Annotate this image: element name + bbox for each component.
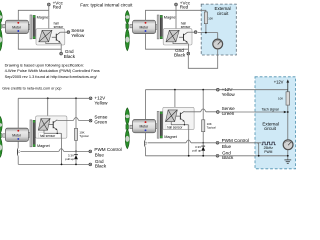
transistor Q4b (PWM switch) — [145, 133, 147, 156]
junction PWM return — [258, 155, 260, 157]
blade highlight (upper) — [125, 15, 129, 19]
junction pull-up/sense — [205, 32, 207, 34]
wire — [18, 97, 89, 99]
hall element X — [166, 110, 178, 122]
wire — [173, 42, 188, 44]
wire — [75, 98, 77, 128]
wire — [188, 125, 190, 156]
wire — [75, 140, 77, 151]
hall element X — [38, 119, 50, 131]
transistor Q4 — [176, 111, 185, 122]
svg-text:Green: Green — [94, 119, 107, 124]
rotor disc — [30, 15, 32, 39]
magnet bar — [33, 15, 35, 38]
terminal Gnd — [216, 154, 219, 157]
svg-text:Magnet: Magnet — [164, 135, 178, 139]
magnet N cap — [33, 15, 35, 17]
fan blade (lower) — [125, 129, 129, 149]
magnet N cap — [33, 120, 35, 122]
rotor disc — [30, 120, 32, 147]
terminal +12V — [216, 88, 219, 91]
svg-text:Red: Red — [53, 5, 62, 10]
junction emitter — [57, 133, 58, 134]
terminal +Vcc — [175, 3, 178, 6]
magnet bar — [160, 112, 162, 138]
terminal Sense — [194, 31, 197, 34]
svg-text:Black: Black — [95, 163, 107, 168]
ground symbol — [284, 160, 291, 163]
blade highlight (lower) — [125, 136, 129, 142]
motor - dot (blue) — [145, 30, 147, 32]
wire — [183, 122, 185, 125]
svg-text:Magnet: Magnet — [37, 16, 51, 20]
motor M1 body — [5, 20, 28, 33]
svg-text:Black: Black — [174, 53, 186, 58]
svg-text:Green: Green — [222, 111, 235, 116]
wire — [56, 130, 58, 133]
rotor disc — [157, 15, 159, 39]
blade highlight (lower) — [0, 37, 2, 43]
wire — [175, 10, 177, 30]
motor M2 body — [133, 20, 156, 33]
fan hub knob — [126, 24, 129, 29]
wire — [184, 111, 216, 113]
junction emitter — [184, 124, 185, 125]
wire hop over pull-up rail — [73, 118, 78, 121]
terminal Gnd — [89, 163, 92, 166]
fan hub shaft — [130, 24, 135, 27]
wire — [60, 44, 62, 53]
wire — [148, 142, 217, 144]
svg-text:Yellow: Yellow — [71, 33, 85, 38]
+12V supply arrow — [287, 81, 289, 92]
junction gnd hall — [188, 155, 190, 157]
wire — [20, 150, 89, 152]
fan blade (upper) — [125, 108, 129, 125]
terminal PWM Control — [89, 150, 92, 153]
resistor R4 10K typical — [202, 120, 205, 132]
wire — [144, 90, 146, 120]
wire PWM source return — [257, 143, 259, 156]
diode D3 (clamp) — [74, 151, 78, 164]
junction gnd diode — [75, 164, 77, 166]
hall sensor box U2 — [163, 29, 192, 45]
wire — [202, 90, 204, 120]
wire — [219, 89, 288, 91]
svg-text:Yellow: Yellow — [94, 101, 108, 106]
blade highlight (upper) — [0, 15, 2, 19]
terminal Gnd — [187, 52, 190, 55]
fan hub knob — [126, 125, 129, 130]
junction gnd/meter — [287, 155, 289, 157]
magnet S cap — [33, 144, 35, 146]
wire — [198, 32, 218, 34]
blade highlight (lower) — [0, 144, 2, 150]
motor M4 body — [133, 120, 156, 133]
motor + dot (red) — [17, 130, 19, 132]
wire hop over pull-up rail — [201, 109, 206, 112]
junction PWM pull-up — [202, 142, 204, 144]
hall sensor label backing — [166, 124, 188, 129]
terminal Gnd — [60, 52, 63, 55]
wire — [146, 10, 177, 20]
wire — [188, 31, 195, 33]
blade highlight (upper) — [0, 123, 2, 127]
wire hop over gnd drop — [59, 149, 64, 152]
transistor Q1 — [52, 32, 61, 43]
fan blade (lower) — [125, 29, 129, 51]
blade highlight (upper) — [125, 115, 129, 119]
fan blade (upper) — [0, 10, 2, 23]
svg-text:PWM: PWM — [264, 150, 272, 154]
wire — [57, 119, 89, 121]
junction PWM pull-up — [75, 151, 77, 153]
terminal +12V — [89, 97, 92, 100]
wire — [187, 44, 189, 53]
wire — [17, 98, 19, 128]
wire — [171, 122, 189, 125]
terminal Sense — [216, 111, 219, 114]
motor shaft to rotor — [28, 25, 30, 30]
resistor R4e 10K (tach pull-up) — [286, 92, 290, 105]
magnet S cap — [160, 37, 162, 39]
svg-text:Magnet: Magnet — [37, 144, 51, 148]
PWM source square wave — [262, 142, 276, 145]
wire — [219, 142, 262, 144]
svg-text:circuit: circuit — [217, 11, 229, 16]
fan blade (upper) — [0, 116, 2, 133]
svg-text:Magnet: Magnet — [164, 16, 178, 20]
wire — [287, 150, 289, 160]
wire — [18, 10, 49, 20]
transistor Q3b (PWM switch) — [18, 141, 20, 164]
motor - dot (blue) — [17, 138, 19, 140]
fan hub shaft — [130, 125, 135, 128]
svg-text:sensor: sensor — [181, 25, 192, 29]
motor shaft to rotor — [156, 124, 158, 129]
transistor Q2 — [179, 32, 188, 43]
fan blade (lower) — [0, 29, 2, 51]
svg-text:4-Wire Pulse Width Modulation: 4-Wire Pulse Width Modulation (PWM) Cont… — [5, 68, 100, 73]
motor M3 body — [5, 128, 28, 141]
wire — [145, 155, 216, 157]
wire — [47, 98, 49, 118]
fan hub shaft — [3, 24, 8, 27]
blade highlight (lower) — [125, 37, 129, 43]
svg-text:Motor: Motor — [139, 125, 149, 129]
junction gnd hall — [61, 164, 63, 166]
terminal Sense — [67, 31, 70, 34]
motor - dot (blue) — [145, 129, 147, 131]
resistor R3 10K typical — [74, 128, 77, 140]
wire — [176, 10, 206, 12]
svg-text:Motor: Motor — [139, 25, 149, 29]
svg-text:10K: 10K — [208, 16, 213, 20]
RPM meter — [213, 39, 223, 49]
diode D4 (clamp) — [201, 143, 205, 156]
svg-text:pull up: pull up — [192, 149, 201, 153]
junction hall feed — [47, 97, 49, 99]
terminal +Vcc — [47, 3, 50, 6]
svg-text:Typical: Typical — [207, 126, 216, 130]
wire — [18, 34, 61, 50]
svg-text:Motor: Motor — [12, 133, 22, 137]
rotor disc — [157, 111, 159, 138]
svg-text:Fan: typical internal circuit: Fan: typical internal circuit — [80, 2, 133, 7]
svg-text:Red: Red — [180, 5, 189, 10]
tach arrowhead — [284, 111, 287, 114]
resistor R2e 10K — [204, 12, 207, 24]
RPM meter — [283, 140, 293, 150]
wire — [48, 10, 50, 30]
fan blade (upper) — [125, 10, 129, 23]
svg-text:hall sensor: hall sensor — [167, 126, 183, 130]
wire — [205, 24, 207, 33]
terminal PWM Control — [216, 141, 219, 144]
terminal Sense — [89, 119, 92, 122]
wire hop over gnd drop — [186, 140, 191, 143]
junction gnd diode — [202, 155, 204, 157]
wire — [18, 163, 89, 165]
wire — [217, 33, 219, 40]
hall element X — [166, 30, 179, 42]
wire — [202, 132, 204, 143]
magnet bar — [160, 15, 162, 38]
wire — [146, 34, 189, 50]
magnet bar — [33, 120, 35, 146]
motor + dot (red) — [145, 22, 147, 24]
magnet S cap — [160, 136, 162, 138]
svg-text:Give credits to neta-nuts.com: Give credits to neta-nuts.com or pcp — [2, 87, 61, 91]
svg-text:sensor: sensor — [54, 25, 65, 29]
svg-text:External: External — [215, 6, 231, 11]
svg-text:PWM Control: PWM Control — [94, 147, 121, 152]
junction hall feed — [174, 89, 176, 91]
wire — [61, 133, 63, 164]
wire — [44, 130, 62, 133]
svg-text:hall sensor: hall sensor — [40, 134, 56, 138]
fan hub knob — [0, 24, 1, 29]
motor shaft to rotor — [28, 132, 30, 137]
svg-text:Tach signal: Tach signal — [262, 107, 279, 111]
magnet N cap — [160, 15, 162, 17]
junction pull-up feed — [202, 89, 204, 91]
svg-text:Blue: Blue — [222, 144, 232, 149]
wire — [60, 31, 67, 33]
svg-text:10K: 10K — [278, 96, 283, 100]
motor + dot (red) — [17, 22, 19, 24]
svg-text:Black: Black — [64, 54, 76, 59]
magnet N cap — [160, 112, 162, 114]
hall sensor box U4 — [163, 107, 194, 129]
fan hub shaft — [3, 134, 8, 137]
fan hub knob — [0, 133, 1, 138]
wire — [219, 155, 288, 157]
wire — [287, 105, 289, 140]
wire — [46, 42, 61, 44]
magnet S cap — [33, 37, 35, 39]
wire — [219, 111, 284, 113]
junction tach — [287, 111, 289, 113]
transistor Q3 — [49, 120, 58, 131]
motor + dot (red) — [145, 121, 147, 123]
motor shaft to rotor — [156, 25, 158, 30]
svg-text:Drawing is based upon followin: Drawing is based upon following specific… — [5, 62, 84, 67]
hall sensor box U3 — [36, 116, 67, 138]
wire — [174, 90, 176, 110]
svg-text:Yellow: Yellow — [222, 92, 236, 97]
junction pull-up feed — [75, 97, 77, 99]
svg-text:Typical: Typical — [79, 134, 88, 138]
svg-text:+12V: +12V — [274, 80, 284, 85]
svg-text:Sep/2005 rev 1.3 found at http: Sep/2005 rev 1.3 found at http://www.for… — [5, 74, 98, 79]
svg-text:Motor: Motor — [12, 25, 22, 29]
wire — [175, 6, 177, 10]
motor - dot (blue) — [17, 30, 19, 32]
svg-text:Blue: Blue — [95, 153, 105, 158]
svg-text:circuit: circuit — [264, 126, 277, 131]
wire — [48, 6, 50, 10]
fan blade (lower) — [0, 138, 2, 158]
svg-text:pull up: pull up — [65, 157, 74, 161]
hall element X — [39, 30, 52, 42]
hall sensor label backing — [39, 133, 61, 138]
hall sensor box U1 — [36, 29, 65, 45]
wire — [145, 89, 216, 91]
wire — [188, 49, 217, 69]
